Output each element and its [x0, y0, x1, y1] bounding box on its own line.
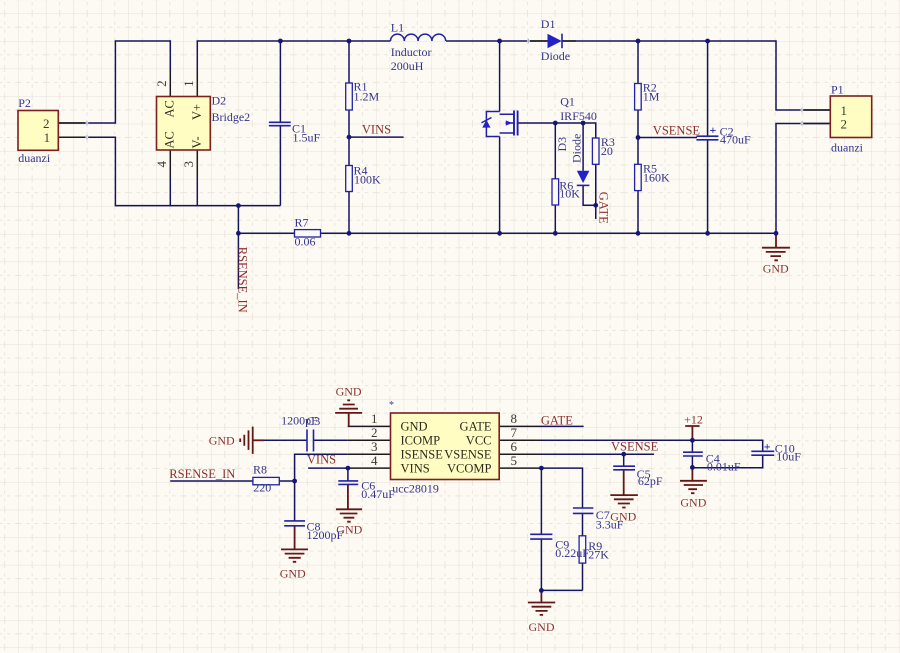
svg-text:RSENSE_IN: RSENSE_IN: [169, 467, 235, 481]
svg-text:0.01uF: 0.01uF: [707, 460, 741, 474]
svg-text:R7: R7: [295, 216, 309, 230]
svg-text:GATE: GATE: [597, 192, 611, 224]
svg-text:GND: GND: [529, 620, 555, 634]
svg-text:VINS: VINS: [307, 453, 336, 467]
svg-text:R8: R8: [253, 463, 267, 477]
svg-text:1.2M: 1.2M: [354, 90, 380, 104]
svg-text:D1: D1: [541, 17, 556, 31]
svg-text:IRF540: IRF540: [560, 109, 597, 123]
svg-text:VSENSE: VSENSE: [444, 447, 492, 461]
svg-text:Bridge2: Bridge2: [212, 110, 251, 124]
svg-text:GND: GND: [401, 420, 428, 434]
svg-text:C3: C3: [306, 414, 320, 428]
svg-text:3: 3: [371, 439, 378, 454]
svg-text:V+: V+: [190, 104, 204, 120]
svg-text:P1: P1: [831, 83, 844, 97]
svg-text:L1: L1: [391, 21, 404, 35]
svg-text:GND: GND: [680, 495, 706, 509]
svg-text:2: 2: [43, 116, 50, 131]
svg-text:GND: GND: [336, 385, 362, 399]
svg-text:200uH: 200uH: [391, 59, 424, 73]
svg-text:*: *: [389, 400, 394, 411]
svg-text:+12: +12: [684, 413, 703, 427]
svg-text:VINS: VINS: [362, 123, 391, 137]
svg-text:GND: GND: [209, 434, 235, 448]
svg-text:1: 1: [181, 80, 196, 87]
svg-text:ISENSE: ISENSE: [401, 447, 444, 461]
svg-text:2: 2: [371, 425, 378, 440]
svg-text:VSENSE: VSENSE: [611, 439, 659, 453]
svg-text:470uF: 470uF: [720, 133, 751, 147]
svg-text:0.47uF: 0.47uF: [361, 487, 395, 501]
svg-text:6: 6: [511, 439, 518, 454]
svg-text:+: +: [764, 440, 771, 454]
svg-text:1: 1: [371, 411, 378, 426]
svg-text:4: 4: [371, 453, 378, 468]
svg-text:1: 1: [44, 130, 51, 145]
svg-text:Diode: Diode: [570, 134, 584, 163]
svg-text:ICOMP: ICOMP: [401, 434, 441, 448]
svg-text:D2: D2: [212, 94, 227, 108]
svg-text:0.06: 0.06: [295, 235, 316, 249]
svg-text:VSENSE: VSENSE: [653, 124, 701, 138]
svg-text:D3: D3: [555, 137, 569, 152]
svg-text:GND: GND: [763, 262, 789, 276]
svg-text:1200pF: 1200pF: [307, 528, 344, 542]
svg-text:160K: 160K: [643, 171, 670, 185]
svg-text:RSENSE_IN: RSENSE_IN: [236, 247, 250, 313]
svg-text:Q1: Q1: [560, 95, 575, 109]
svg-text:duanzi: duanzi: [831, 141, 864, 155]
svg-text:3.3uF: 3.3uF: [596, 517, 624, 531]
svg-text:VCC: VCC: [466, 434, 492, 448]
svg-text:2: 2: [154, 80, 169, 87]
svg-text:P2: P2: [18, 96, 31, 110]
svg-text:AC: AC: [162, 131, 176, 148]
svg-text:7: 7: [511, 425, 518, 440]
svg-text:GND: GND: [280, 567, 306, 581]
svg-text:1.5uF: 1.5uF: [293, 130, 321, 144]
svg-text:10K: 10K: [559, 187, 580, 201]
svg-text:4: 4: [154, 161, 169, 168]
svg-text:62pF: 62pF: [638, 474, 663, 488]
svg-text:V-: V-: [190, 136, 204, 148]
svg-text:27K: 27K: [588, 547, 609, 561]
svg-text:2: 2: [841, 116, 848, 131]
svg-text:8: 8: [511, 411, 518, 426]
svg-text:0.22uF: 0.22uF: [555, 546, 589, 560]
svg-text:GATE: GATE: [541, 413, 573, 427]
svg-text:10uF: 10uF: [776, 450, 801, 464]
svg-text:ucc28019: ucc28019: [392, 481, 439, 495]
svg-text:220: 220: [253, 481, 271, 495]
svg-text:Diode: Diode: [541, 49, 570, 63]
svg-text:GATE: GATE: [460, 420, 492, 434]
svg-text:100K: 100K: [354, 173, 381, 187]
svg-text:20: 20: [601, 144, 613, 158]
svg-text:duanzi: duanzi: [18, 151, 51, 165]
svg-text:5: 5: [511, 453, 518, 468]
svg-text:Inductor: Inductor: [391, 45, 432, 59]
svg-text:AC: AC: [162, 100, 176, 117]
svg-text:VCOMP: VCOMP: [447, 461, 492, 475]
svg-text:3: 3: [181, 161, 196, 168]
svg-text:1M: 1M: [643, 90, 660, 104]
svg-text:VINS: VINS: [401, 461, 430, 475]
svg-text:+: +: [710, 123, 717, 137]
